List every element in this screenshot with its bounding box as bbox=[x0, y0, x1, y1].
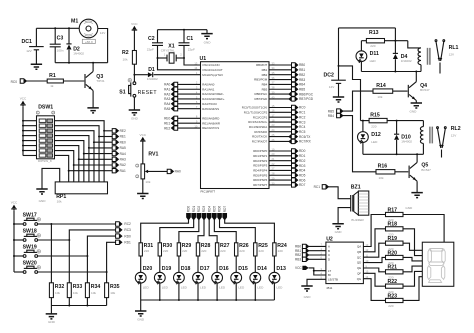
wire to tag RE0 bbox=[94, 141, 112, 143]
svg-text:QE: QE bbox=[357, 266, 361, 270]
diode D10 bbox=[396, 121, 398, 134]
wire QF to R22 bbox=[363, 273, 385, 286]
wire collector rail bbox=[55, 62, 107, 64]
svg-text:RA2: RA2 bbox=[164, 92, 170, 96]
node branch RA1 bbox=[68, 170, 70, 172]
node branch RA3 bbox=[78, 158, 80, 160]
node D2/top bbox=[68, 27, 70, 29]
node RC6/TX tag bbox=[289, 134, 297, 138]
wire SW19 to tag RD0 bbox=[87, 236, 115, 256]
diode D1 bbox=[148, 72, 153, 77]
resistor R18 bbox=[386, 227, 404, 231]
wire pin 26 bbox=[269, 140, 289, 142]
node RE0 tag bbox=[112, 140, 118, 144]
node supply branch bbox=[338, 65, 340, 67]
node RA0 tag (RV1) bbox=[167, 169, 173, 173]
relay RL1 rail bbox=[361, 40, 366, 42]
capacitor C1 bbox=[183, 30, 185, 43]
wire SW pulldown rail bbox=[51, 305, 106, 307]
wire to tag RA2 bbox=[74, 164, 112, 166]
wire QB to R18 bbox=[363, 229, 385, 252]
wire collector rail RL1 bbox=[361, 71, 421, 73]
node branch RE2 bbox=[103, 130, 105, 132]
svg-text:RA2/AN2/VREF-: RA2/AN2/VREF- bbox=[202, 92, 224, 96]
svg-text:GND: GND bbox=[39, 199, 47, 203]
svg-text:RB5: RB5 bbox=[262, 87, 268, 91]
wire pin 24 bbox=[269, 131, 292, 133]
wire R1 to Q3 base bbox=[63, 80, 84, 82]
svg-text:LED: LED bbox=[276, 285, 283, 289]
wire pin 23 bbox=[269, 126, 292, 128]
svg-text:RA0/AN0: RA0/AN0 bbox=[202, 83, 214, 87]
svg-text:RA4: RA4 bbox=[164, 102, 170, 106]
motor M1 bbox=[79, 19, 98, 38]
svg-text:R23: R23 bbox=[388, 293, 398, 299]
wire collector rail RL2 bbox=[363, 153, 424, 155]
svg-text:R18: R18 bbox=[388, 222, 398, 228]
svg-text:LED: LED bbox=[181, 285, 188, 289]
wire RD6 to R25 bbox=[220, 220, 256, 243]
svg-text:LED: LED bbox=[143, 285, 150, 289]
ground (Q3) bbox=[87, 108, 98, 113]
wire RD2 to R29 bbox=[179, 220, 199, 243]
wire Q4 collector bbox=[415, 72, 417, 82]
wire SW17 to R32 column bbox=[38, 223, 52, 225]
wire rail to SW18 bbox=[14, 239, 23, 241]
svg-text:LE/STB: LE/STB bbox=[328, 277, 338, 281]
wire pin 22 bbox=[269, 165, 292, 167]
node SW17 junction bbox=[50, 223, 52, 225]
wire RC1 to buzzer bbox=[328, 187, 350, 199]
svg-text:RC6/TX: RC6/TX bbox=[299, 135, 311, 139]
svg-text:VCC: VCC bbox=[140, 133, 147, 137]
svg-text:10k: 10k bbox=[73, 291, 78, 295]
svg-text:DC1: DC1 bbox=[22, 39, 32, 45]
node C1 top bbox=[183, 29, 185, 31]
svg-text:R15: R15 bbox=[370, 112, 380, 118]
svg-text:U1: U1 bbox=[200, 56, 207, 62]
wire pin 28 bbox=[269, 174, 292, 176]
resistor R14 bbox=[373, 89, 393, 93]
svg-text:GND: GND bbox=[335, 230, 343, 234]
wire motor right bbox=[98, 29, 108, 63]
svg-text:RC3: RC3 bbox=[124, 228, 131, 232]
svg-text:RC7/RX/DT: RC7/RX/DT bbox=[252, 140, 267, 144]
wire DSW1 left pin 8 bbox=[23, 154, 37, 156]
svg-text:RB6/PGC: RB6/PGC bbox=[299, 92, 314, 96]
svg-text:220: 220 bbox=[220, 249, 225, 253]
svg-text:C1: C1 bbox=[187, 36, 194, 42]
svg-text:D14: D14 bbox=[257, 266, 267, 272]
wire DSW1 out 2 bbox=[55, 126, 100, 182]
svg-text:QG: QG bbox=[357, 277, 362, 281]
svg-text:DSW1: DSW1 bbox=[38, 105, 53, 111]
node Q4 collector bbox=[415, 71, 417, 73]
node RD6 tag bbox=[292, 178, 298, 182]
svg-text:RB5: RB5 bbox=[299, 87, 305, 91]
svg-text:220: 220 bbox=[201, 249, 206, 253]
relay RL2 coil bbox=[422, 121, 424, 127]
svg-text:RD6: RD6 bbox=[299, 178, 306, 182]
wire R29 to D18 bbox=[178, 256, 180, 272]
node RC1 tag bbox=[292, 110, 298, 114]
svg-text:RA1: RA1 bbox=[164, 87, 170, 91]
wire X1 to OSC1 bbox=[184, 58, 201, 65]
wire RD1 to R30 bbox=[160, 220, 194, 243]
svg-text:RA1/AN1: RA1/AN1 bbox=[202, 87, 214, 91]
wire pin 20 bbox=[269, 155, 292, 157]
svg-text:GND: GND bbox=[405, 206, 413, 210]
svg-text:RE0: RE0 bbox=[120, 140, 126, 144]
svg-text:RC0: RC0 bbox=[299, 106, 306, 110]
resistor R2 bbox=[132, 51, 136, 65]
switch S1 RESET bbox=[128, 79, 136, 98]
diode D16 (LED) bbox=[212, 272, 223, 284]
svg-text:RC2/CCP1: RC2/CCP1 bbox=[253, 115, 268, 119]
node X1 right bbox=[183, 57, 185, 59]
wire QD to R20 bbox=[363, 257, 385, 262]
ground (crystal) bbox=[206, 30, 208, 34]
ground (BZ1) bbox=[332, 224, 343, 229]
resistor R35 bbox=[106, 272, 108, 283]
svg-text:RD6/PSP6: RD6/PSP6 bbox=[253, 178, 267, 182]
svg-text:10k: 10k bbox=[379, 176, 384, 180]
svg-text:D19: D19 bbox=[162, 266, 172, 272]
svg-text:RD3/PSP3: RD3/PSP3 bbox=[253, 164, 267, 168]
wire pin 25 bbox=[269, 136, 289, 138]
svg-text:22pF: 22pF bbox=[188, 47, 195, 51]
wire RD4 to R27 bbox=[209, 220, 217, 243]
resistor R1 bbox=[47, 79, 63, 83]
buzzer BZ1 bbox=[351, 191, 369, 215]
switch element 1 bbox=[39, 119, 46, 122]
svg-text:RB1: RB1 bbox=[262, 68, 268, 72]
svg-text:VCC: VCC bbox=[295, 266, 302, 270]
wire pin 15 bbox=[269, 107, 292, 109]
svg-text:RA1: RA1 bbox=[120, 169, 126, 173]
svg-text:RD7: RD7 bbox=[223, 206, 227, 213]
svg-text:RA2: RA2 bbox=[120, 163, 126, 167]
node branch RA2 bbox=[73, 164, 75, 166]
svg-text:D13: D13 bbox=[276, 266, 286, 272]
svg-text:RD0: RD0 bbox=[187, 206, 191, 213]
wire R25 to D14 bbox=[254, 256, 256, 272]
wire pin 34 bbox=[269, 69, 292, 71]
svg-text:RB1: RB1 bbox=[299, 68, 305, 72]
wire R19 to display bbox=[403, 243, 422, 250]
wire pin 30 bbox=[269, 184, 292, 186]
svg-text:BUZZER: BUZZER bbox=[351, 218, 364, 222]
svg-text:RE2: RE2 bbox=[164, 126, 170, 130]
svg-text:RE2: RE2 bbox=[120, 129, 126, 133]
ground (S1) bbox=[129, 110, 140, 115]
wire pin 21 bbox=[269, 160, 292, 162]
svg-text:RA0: RA0 bbox=[164, 83, 170, 87]
svg-text:RB7/PGD: RB7/PGD bbox=[254, 97, 267, 101]
wire RP1 common bbox=[42, 168, 60, 189]
node RA1 tag bbox=[112, 169, 118, 173]
svg-text:4511: 4511 bbox=[326, 286, 333, 290]
svg-text:R16: R16 bbox=[378, 164, 388, 170]
svg-text:12V: 12V bbox=[329, 85, 335, 89]
svg-text:22pF: 22pF bbox=[147, 47, 154, 51]
wire supply to RL2 block bbox=[339, 66, 361, 121]
wire pin 29 bbox=[269, 179, 292, 181]
svg-text:U2: U2 bbox=[326, 236, 333, 242]
svg-text:RC2: RC2 bbox=[124, 222, 131, 226]
svg-text:RB2: RB2 bbox=[299, 73, 305, 77]
transistor Q4 bbox=[408, 82, 416, 101]
svg-text:LED: LED bbox=[370, 59, 377, 63]
resistor R24 bbox=[273, 243, 276, 256]
wire C2 bottom bbox=[157, 45, 159, 58]
svg-text:RC2: RC2 bbox=[299, 115, 306, 119]
svg-text:RD5: RD5 bbox=[299, 173, 306, 177]
node RD0 tag bbox=[116, 234, 122, 238]
svg-text:RB0/INT: RB0/INT bbox=[256, 63, 267, 67]
svg-text:RD1/PSP1: RD1/PSP1 bbox=[253, 154, 267, 158]
diode D17 (LED) bbox=[193, 272, 204, 284]
diode D19 (LED) bbox=[154, 272, 165, 284]
svg-text:1k: 1k bbox=[50, 84, 54, 88]
wire RD3 to R28 bbox=[198, 220, 204, 243]
diode D11 (LED) bbox=[356, 51, 367, 63]
node RD0 tag bbox=[292, 149, 298, 153]
svg-text:10k: 10k bbox=[377, 95, 382, 99]
node RA2 tag (chip side) bbox=[178, 93, 201, 95]
wire buzzer lower terminal bbox=[338, 208, 350, 224]
wire D18 to rail bbox=[178, 283, 180, 300]
wire Q5 collector bbox=[416, 154, 418, 162]
wire DSW1 out 8 bbox=[55, 155, 69, 181]
crystal X1 bbox=[167, 53, 176, 63]
7-segment display bbox=[422, 242, 454, 286]
wire DSW1 left pin 5 bbox=[23, 140, 37, 142]
wire SW17 to tag RC2 bbox=[51, 223, 115, 225]
wire RB0 to U2 bbox=[309, 245, 326, 247]
svg-text:RA5/AN4/SS: RA5/AN4/SS bbox=[202, 107, 219, 111]
resistor R20 bbox=[386, 255, 404, 259]
resistor R30 bbox=[158, 243, 161, 256]
node RB5 tag bbox=[292, 87, 298, 91]
svg-text:RE0/AN5/RD: RE0/AN5/RD bbox=[202, 116, 219, 120]
svg-text:RD3: RD3 bbox=[299, 164, 306, 168]
svg-text:R2: R2 bbox=[122, 50, 129, 56]
svg-text:RD4: RD4 bbox=[207, 206, 211, 213]
wire VCC to R2 bbox=[133, 32, 135, 51]
wire R23 to display bbox=[403, 277, 422, 301]
wire Q5 emitter bbox=[416, 181, 418, 192]
relay RL2 rail bbox=[361, 120, 370, 122]
node RE1 tag bbox=[112, 134, 118, 138]
svg-text:12V: 12V bbox=[449, 52, 455, 56]
svg-text:R22: R22 bbox=[388, 279, 398, 285]
resistor R29 bbox=[177, 243, 180, 256]
op-amp U2 (decoder 4511) bbox=[326, 242, 364, 284]
wire DSW1 out 4 bbox=[55, 136, 89, 182]
svg-text:VCC: VCC bbox=[131, 22, 138, 26]
wire R28 to D17 bbox=[197, 256, 199, 272]
node vcc rail 2 bbox=[22, 125, 24, 127]
wire D15 to rail bbox=[235, 283, 237, 300]
node RA0 tag (chip side) bbox=[178, 83, 201, 85]
svg-text:RB5: RB5 bbox=[328, 109, 334, 113]
svg-text:R17: R17 bbox=[388, 207, 398, 213]
wire RB2 to U2 bbox=[309, 254, 326, 256]
wire SW18 to tag RC3 bbox=[69, 230, 115, 240]
svg-text:RD6: RD6 bbox=[218, 206, 222, 213]
svg-text:RB0: RB0 bbox=[299, 63, 305, 67]
node RB2 tag bbox=[292, 73, 298, 77]
wire DSW1 out 1 bbox=[55, 121, 105, 182]
wire R21 to display bbox=[403, 266, 422, 272]
svg-text:PIC16F877: PIC16F877 bbox=[201, 189, 216, 193]
svg-text:R32: R32 bbox=[55, 284, 65, 290]
resistor R33 bbox=[68, 240, 70, 283]
wire DSW1 out 6 bbox=[55, 146, 79, 182]
svg-text:D: D bbox=[328, 257, 330, 261]
svg-text:DC2: DC2 bbox=[324, 73, 334, 79]
node RD5 tag bbox=[292, 173, 298, 177]
wire rail to SW17 bbox=[14, 223, 23, 225]
svg-text:RB7/PGD: RB7/PGD bbox=[299, 97, 314, 101]
svg-text:BC547: BC547 bbox=[421, 168, 431, 172]
node RC5 tag bbox=[292, 130, 298, 134]
resistor R13 bbox=[366, 39, 384, 43]
svg-text:R33: R33 bbox=[73, 284, 83, 290]
svg-text:1N4002: 1N4002 bbox=[401, 59, 412, 63]
wire R13 to D11 bbox=[360, 41, 362, 51]
relay RL2 contacts bbox=[437, 127, 447, 158]
ground (Q4) bbox=[411, 103, 422, 108]
resistor R21 bbox=[386, 270, 404, 274]
svg-text:RA4: RA4 bbox=[120, 152, 126, 156]
svg-text:RD4/PSP4: RD4/PSP4 bbox=[253, 169, 267, 173]
wire D20 to rail bbox=[140, 283, 142, 300]
wire LED cathode rail bbox=[141, 299, 275, 301]
svg-text:DIPSW_8: DIPSW_8 bbox=[38, 159, 52, 163]
svg-text:QF: QF bbox=[357, 271, 361, 275]
svg-text:RC4/SDI/SDA: RC4/SDI/SDA bbox=[249, 125, 267, 129]
wire RB5 to R14 bbox=[343, 91, 373, 111]
node D10 top bbox=[396, 120, 398, 122]
node RA2 tag bbox=[112, 163, 118, 167]
svg-text:R19: R19 bbox=[388, 236, 398, 242]
wire node to D1 bbox=[134, 74, 148, 76]
node RD1 tag bbox=[116, 240, 122, 244]
svg-text:RB3: RB3 bbox=[295, 258, 301, 262]
wire pin 36 bbox=[269, 79, 292, 81]
wire to tag RE1 bbox=[99, 136, 112, 138]
svg-text:QA: QA bbox=[357, 245, 361, 249]
svg-text:R14: R14 bbox=[376, 83, 386, 89]
resistor R31 bbox=[139, 243, 142, 256]
wire RD0 to R31 bbox=[141, 220, 189, 243]
node vcc rail 3 bbox=[22, 130, 24, 132]
wire LE/STB to ground bbox=[307, 279, 326, 286]
wire D1 to MCLR pin bbox=[154, 74, 201, 76]
svg-text:QD: QD bbox=[357, 261, 361, 265]
wire DSW1 left pin 3 bbox=[23, 130, 37, 132]
node SW19 junction bbox=[86, 255, 88, 257]
diode D14 (LED) bbox=[250, 272, 261, 284]
node D4 bottom bbox=[394, 71, 396, 73]
wire QA to R17 bbox=[363, 215, 385, 247]
svg-text:RD1: RD1 bbox=[299, 154, 306, 158]
relay RL1 contacts bbox=[435, 40, 445, 74]
ground (RP1) bbox=[36, 189, 47, 194]
wire to tag RA4 bbox=[84, 153, 112, 155]
svg-text:VCC: VCC bbox=[11, 201, 18, 205]
svg-text:D12: D12 bbox=[371, 132, 381, 138]
svg-text:RB6/PGC: RB6/PGC bbox=[254, 92, 267, 96]
wire rail to ground bbox=[50, 306, 52, 314]
resistor R26 bbox=[235, 243, 238, 256]
wire SW18 to R33 column bbox=[38, 239, 70, 241]
svg-text:RD1: RD1 bbox=[124, 241, 131, 245]
transistor Q3 bbox=[85, 72, 93, 91]
node RE2 tag bbox=[112, 129, 118, 133]
switch element 8 bbox=[39, 154, 46, 157]
wire D14 to rail bbox=[254, 283, 256, 300]
node RD4 tag bbox=[292, 168, 298, 172]
switch element 6 bbox=[39, 144, 46, 147]
svg-text:RB4: RB4 bbox=[299, 83, 305, 87]
svg-text:RB4: RB4 bbox=[328, 114, 334, 118]
wire pin 38 bbox=[269, 88, 292, 90]
resistor R34 bbox=[86, 256, 88, 283]
resistor R17 bbox=[386, 212, 404, 216]
svg-text:RC5/SDO: RC5/SDO bbox=[254, 130, 268, 134]
svg-text:RC5: RC5 bbox=[299, 130, 306, 134]
svg-text:RA3: RA3 bbox=[164, 97, 170, 101]
svg-text:LED: LED bbox=[238, 285, 245, 289]
ground (U2) bbox=[301, 286, 312, 291]
wire to tag RA5 bbox=[89, 147, 112, 149]
node RA5 tag (chip side) bbox=[178, 108, 201, 110]
node RB1 tag bbox=[292, 68, 298, 72]
transistor Q5 bbox=[409, 162, 417, 181]
wire Q3 collector bbox=[92, 63, 94, 72]
wire QG to R23 bbox=[363, 279, 385, 301]
svg-text:1N4002: 1N4002 bbox=[401, 140, 412, 144]
node RC3 tag bbox=[116, 228, 122, 232]
node RB7/PGD tag bbox=[289, 97, 297, 101]
svg-text:RD5: RD5 bbox=[212, 206, 216, 213]
svg-text:LED: LED bbox=[219, 285, 226, 289]
wire R24 to D13 bbox=[273, 256, 275, 272]
ground (LED row) bbox=[135, 311, 146, 316]
svg-text:RA5: RA5 bbox=[164, 107, 170, 111]
wire RD5 to R26 bbox=[214, 220, 236, 243]
switch element 3 bbox=[39, 129, 46, 132]
svg-text:RE2/AN7/CS: RE2/AN7/CS bbox=[202, 126, 219, 130]
svg-text:RC6/TX/CK: RC6/TX/CK bbox=[252, 135, 267, 139]
wire pin 35 bbox=[269, 74, 292, 76]
wire rail to SW19 bbox=[14, 255, 23, 257]
svg-text:QC: QC bbox=[357, 255, 361, 259]
wire SW20 to tag RD1 bbox=[107, 242, 116, 272]
svg-text:LED: LED bbox=[162, 285, 169, 289]
resistor R16 bbox=[376, 170, 395, 174]
svg-text:RD0: RD0 bbox=[124, 234, 131, 238]
capacitor C2 bbox=[157, 30, 159, 43]
wire DSW1 left pin 6 bbox=[23, 145, 37, 147]
svg-text:RE1: RE1 bbox=[120, 135, 126, 139]
diode D15 (LED) bbox=[231, 272, 242, 284]
svg-text:RD5/PSP5: RD5/PSP5 bbox=[253, 173, 267, 177]
svg-text:M1: M1 bbox=[71, 18, 78, 24]
